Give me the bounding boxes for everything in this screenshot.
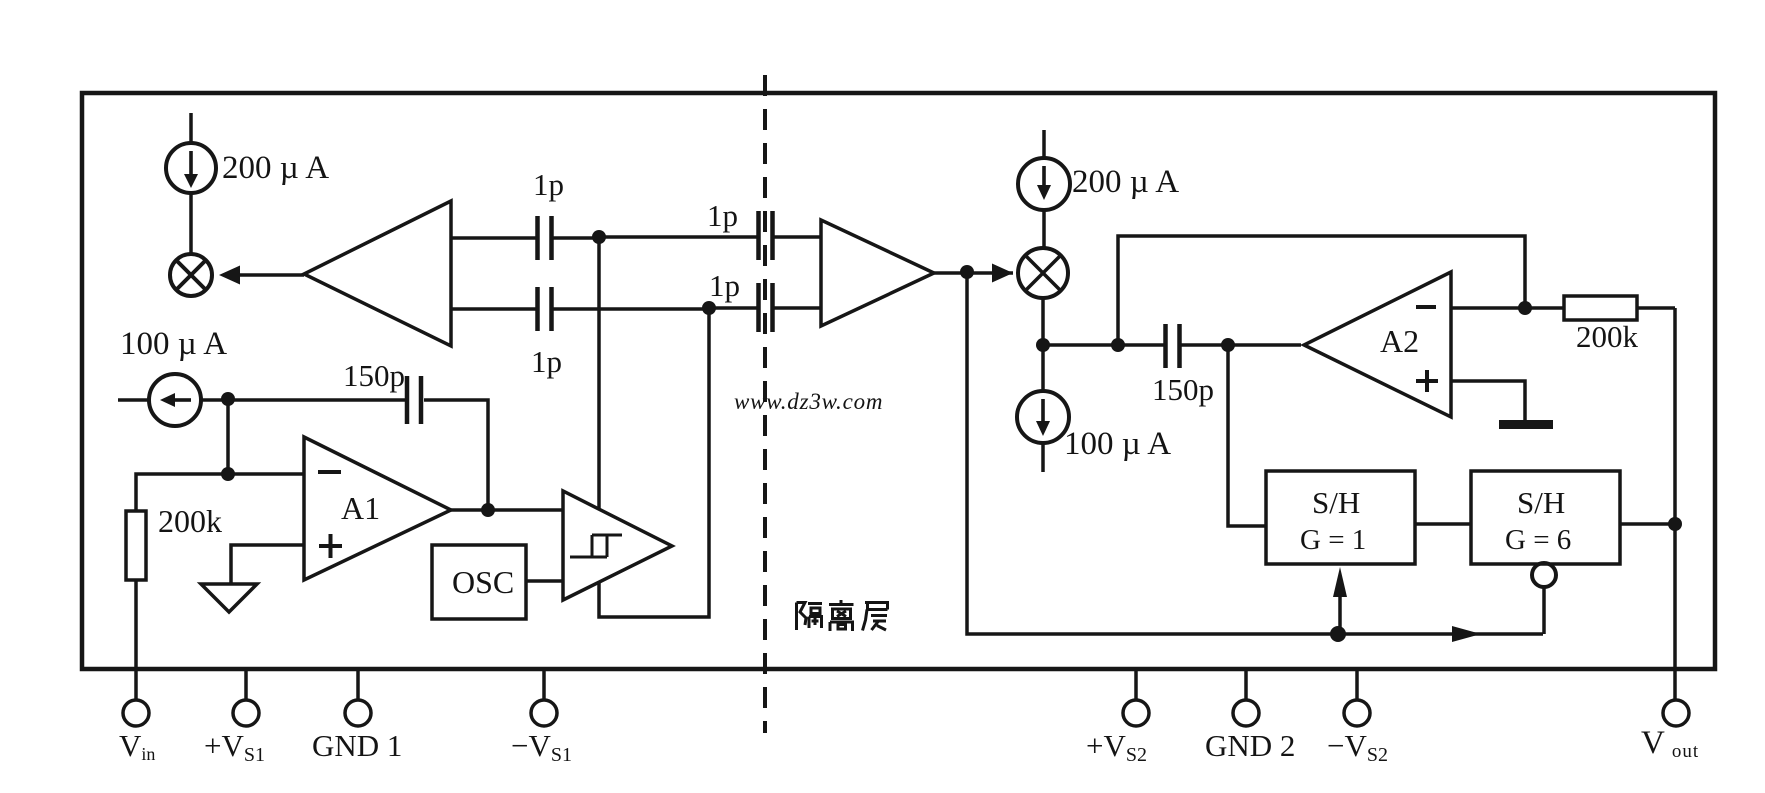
wire bottom input of left buffer [451, 307, 537, 311]
capacitor C5 150p [405, 376, 410, 424]
svg-text:A2: A2 [1380, 323, 1419, 359]
wire I2 to node C [201, 398, 228, 402]
svg-text:100 µ A: 100 µ A [120, 326, 227, 362]
resistor R2 200k [1564, 296, 1637, 320]
barrier capacitor C3 1p top [756, 211, 761, 260]
arrowhead right on control line [1452, 626, 1481, 642]
svg-text:www.dz3w.com: www.dz3w.com [734, 389, 883, 414]
wire C5 to A1 output node [424, 400, 488, 510]
op-amp A2 (apex pointing left) [1304, 272, 1451, 417]
wire A2 minus input [1450, 306, 1525, 310]
svg-text:200k: 200k [158, 503, 222, 539]
svg-text:150p: 150p [1152, 372, 1214, 407]
comparator U2 with hysteresis [563, 491, 672, 600]
sample-hold block S/H G=1 [1266, 471, 1415, 564]
wire demod amp output to X1 with arrowhead [238, 273, 304, 277]
node L junction dot (A2 minus) [1518, 301, 1532, 315]
A2 minus sign [1416, 305, 1436, 309]
terminal GND1 [345, 700, 371, 726]
demodulator mixer X2 (circled X) [1018, 248, 1068, 298]
wire right buffer output to X2 with arrowhead [934, 271, 1013, 275]
op-amp A1 [304, 437, 451, 580]
arrow up into S/H G=1 [1338, 594, 1342, 634]
node M junction dot (S/H G=6 output) [1668, 517, 1682, 531]
node G junction dot [1036, 338, 1050, 352]
wire stub left of I2 [118, 398, 149, 402]
svg-text:−VS2: −VS2 [1327, 728, 1388, 766]
node K junction dot (S/H tap) [1221, 338, 1235, 352]
terminal Vin [123, 700, 149, 726]
node D junction dot [221, 467, 235, 481]
Vout vertical wire [1673, 308, 1677, 700]
current source I1 200uA stem [189, 113, 193, 143]
wire node L to R2 [1525, 306, 1564, 310]
terminal stem -VS2 [1355, 669, 1359, 700]
svg-text:OSC: OSC [452, 564, 514, 600]
svg-text:1p: 1p [531, 344, 562, 379]
svg-text:200k: 200k [1576, 319, 1639, 354]
wire S/H G=6 to Vout line [1620, 522, 1675, 526]
svg-text:S/H: S/H [1312, 485, 1360, 520]
svg-text:S/H: S/H [1517, 485, 1565, 520]
node B junction dot [702, 301, 716, 315]
wire S/H G=1 to S/H G=6 [1415, 522, 1471, 526]
svg-text:1p: 1p [533, 167, 564, 202]
svg-text:+VS2: +VS2 [1086, 728, 1147, 766]
wire C1 to node A [553, 236, 599, 240]
wire node C to capacitor C5 [228, 398, 407, 402]
wire R2 to Vout line [1637, 306, 1675, 310]
char GE (isolation) [797, 603, 823, 631]
char LI (separate) [829, 600, 854, 631]
wire A1 output to comparator [451, 508, 563, 512]
ground symbol G2 (bar) [1499, 420, 1553, 429]
wire top input of left buffer [451, 236, 537, 240]
current source I4 stem below [1041, 443, 1045, 472]
hysteresis symbol [570, 535, 622, 557]
wire A2 plus input to ground [1450, 381, 1525, 421]
wire node C down to inverting node [226, 399, 230, 474]
char CENG (layer) [863, 603, 888, 631]
wire vertical from top cap node down behind comparator [599, 237, 709, 617]
isolation barrier dashed line [763, 75, 767, 733]
wire node F down to S/H control line [967, 272, 1543, 634]
A2 plus sign [1416, 370, 1438, 392]
svg-text:G = 6: G = 6 [1505, 524, 1571, 556]
svg-text:1p: 1p [709, 268, 740, 303]
terminal stem +VS2 [1134, 669, 1138, 700]
wire node G to capacitor C6 [1043, 343, 1164, 347]
terminal Vout [1663, 700, 1689, 726]
node J junction dot (feedback tap) [1111, 338, 1125, 352]
sampling circle under S/H G=6 [1532, 563, 1556, 587]
terminal GND2 [1233, 700, 1259, 726]
current source I4 100uA [1017, 391, 1069, 443]
wire C6 to A2 [1181, 343, 1301, 347]
wire R1 to Vin terminal [134, 580, 138, 700]
op-amp modulator buffer right (triangle pointing right... pointing right-ward apex) [821, 220, 934, 326]
svg-text:GND 2: GND 2 [1205, 728, 1295, 763]
wire node A to barrier cap C3 [599, 235, 758, 239]
barrier capacitor C4 1p bottom [756, 283, 761, 332]
svg-text:G = 1: G = 1 [1300, 524, 1366, 556]
terminal stem -VS1 [542, 669, 546, 700]
wire circle to control line [1542, 587, 1546, 634]
wire node B to barrier cap C4 [709, 306, 758, 310]
sample-hold block S/H G=6 [1471, 471, 1620, 564]
wire node K down into S/H G=1 [1228, 345, 1266, 526]
terminal -VS1 [531, 700, 557, 726]
modulator mixer X1 (circled X) [170, 254, 212, 296]
wire I3 to X2 [1042, 210, 1046, 248]
node C junction dot [221, 392, 235, 406]
capacitor C6 150p [1163, 324, 1168, 368]
wire I1 to multiplier [189, 193, 193, 254]
A1 minus sign [318, 470, 341, 474]
current source I1 200uA [166, 143, 216, 193]
terminal +VS2 [1123, 700, 1149, 726]
svg-text:Vout: Vout [1641, 725, 1699, 762]
svg-text:GND 1: GND 1 [312, 728, 402, 763]
wire feedback node J up and right to A2 minus node [1118, 236, 1525, 345]
wire A1 plus input [231, 545, 304, 584]
svg-text:150p: 150p [343, 358, 405, 393]
capacitor C2 1p [535, 287, 540, 331]
svg-text:1p: 1p [707, 198, 738, 233]
node H junction dot on control line [1330, 626, 1346, 642]
current source I2 100uA [149, 374, 201, 426]
label isolation layer (hand-drawn CJK 隔离层) [797, 600, 888, 631]
current source I3 200uA stem [1042, 130, 1046, 158]
svg-text:100 µ A: 100 µ A [1064, 426, 1171, 462]
resistor R1 200k [126, 511, 146, 580]
capacitor C1 1p [535, 216, 540, 260]
wire C2 to node B [553, 307, 709, 311]
wire C3 to right buffer [774, 235, 821, 239]
svg-text:A1: A1 [341, 490, 380, 526]
node A junction dot [592, 230, 606, 244]
terminal stem +VS1 [244, 669, 248, 700]
IC package border [82, 93, 1715, 669]
svg-text:200 µ A: 200 µ A [1072, 164, 1179, 200]
terminal stem GND1 [356, 669, 360, 700]
terminal stem GND2 [1244, 669, 1248, 700]
terminal -VS2 [1344, 700, 1370, 726]
svg-text:Vin: Vin [119, 728, 155, 764]
svg-text:+VS1: +VS1 [204, 728, 265, 766]
svg-text:−VS1: −VS1 [511, 728, 572, 766]
wire node G to I4 [1041, 345, 1045, 391]
ground symbol G1 [201, 584, 257, 612]
oscillator OSC box [432, 545, 526, 619]
wire C4 to right buffer [774, 306, 821, 310]
terminal +VS1 [233, 700, 259, 726]
current source I3 200uA [1018, 158, 1070, 210]
wire inverting input line [136, 474, 304, 511]
node F junction dot (demod signal) [960, 265, 974, 279]
wire OSC to comparator [526, 579, 563, 583]
wire X2 down to node G [1041, 298, 1045, 345]
op-amp demodulator buffer left (triangle pointing left) [304, 201, 451, 346]
svg-text:200 µ A: 200 µ A [222, 150, 329, 186]
node E junction dot (A1 output) [481, 503, 495, 517]
A1 plus sign [319, 534, 342, 558]
